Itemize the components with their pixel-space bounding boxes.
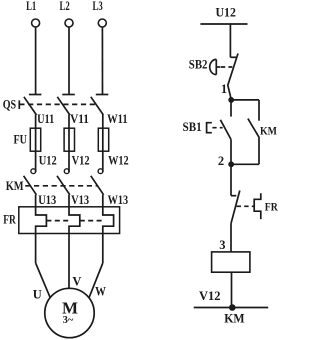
wire QS to fuse FU pole 2 xyxy=(68,115,70,173)
svg-text:V: V xyxy=(72,274,81,288)
contactor KM pole 2 fixed contact xyxy=(64,169,69,174)
svg-text:W13: W13 xyxy=(108,193,129,207)
FR heater element pole 1 with wires xyxy=(36,195,47,263)
SB2 actuator link tick xyxy=(216,66,220,68)
svg-text:FU: FU xyxy=(14,132,28,147)
start button SB1 blade (NO) xyxy=(220,120,231,140)
svg-text:1: 1 xyxy=(221,82,227,96)
node 1 junction dot xyxy=(228,97,234,103)
svg-text:V12: V12 xyxy=(72,154,90,168)
svg-text:U12: U12 xyxy=(216,4,236,19)
thermal relay FR enclosure xyxy=(19,207,120,234)
contactor KM pole 1 fixed contact xyxy=(31,169,36,174)
FR contact blade (NC) xyxy=(231,191,240,224)
svg-text:U: U xyxy=(33,288,42,302)
svg-text:2: 2 xyxy=(218,154,224,168)
fuse FU pole 3 xyxy=(98,128,108,151)
disconnect switch QS pole 2 contact bar xyxy=(62,94,75,96)
disconnect switch QS pole 2 blade xyxy=(57,97,70,115)
FR contact fixed tick xyxy=(231,195,236,197)
wire node 2 to FR contact xyxy=(230,164,232,195)
wire QS to fuse FU pole 3 xyxy=(102,115,104,173)
wire L3 down to QS xyxy=(101,27,103,95)
terminal L1 xyxy=(32,19,40,27)
FR contact dashed link xyxy=(237,205,255,207)
svg-text:W12: W12 xyxy=(108,154,129,168)
KM mechanical linkage (dashed) xyxy=(25,185,97,187)
svg-text:SB2: SB2 xyxy=(189,58,208,72)
svg-text:SB1: SB1 xyxy=(183,120,202,134)
svg-text:FR: FR xyxy=(265,200,278,214)
fuse FU pole 2 xyxy=(64,128,74,151)
wire SB1 to node 2 xyxy=(230,139,232,164)
FR heater element pole 2 with wires xyxy=(69,195,80,289)
contactor coil KM xyxy=(212,252,250,272)
svg-text:KM: KM xyxy=(224,312,245,326)
wire U12 bar to SB2 xyxy=(229,24,231,57)
svg-text:KM: KM xyxy=(260,123,277,137)
svg-text:L1: L1 xyxy=(26,0,36,13)
svg-text:FR: FR xyxy=(3,213,16,227)
wire KM aux branch upper xyxy=(258,100,260,121)
svg-text:V12: V12 xyxy=(199,289,221,303)
wire node1 to KM aux branch (horizontal) xyxy=(231,99,259,101)
svg-text:V11: V11 xyxy=(70,112,89,126)
disconnect switch QS pole 3 blade xyxy=(91,97,104,115)
svg-text:L3: L3 xyxy=(93,0,103,13)
svg-text:W: W xyxy=(95,284,106,298)
stop button SB2 fixed contact tick xyxy=(230,56,236,58)
SB2 mushroom head xyxy=(210,59,217,74)
wire node1 to SB1 xyxy=(230,100,232,117)
QS mechanical linkage (dashed) xyxy=(19,103,96,105)
contactor KM pole 1 blade xyxy=(24,176,37,195)
svg-text:QS: QS xyxy=(3,97,16,112)
FR linkage dashes 2-3 xyxy=(80,220,103,222)
motor M circle xyxy=(45,288,94,337)
wire to motor terminal W (diagonal) xyxy=(89,263,103,298)
node 2 junction dot xyxy=(228,161,234,167)
terminal L2 xyxy=(65,19,73,27)
contactor KM pole 3 fixed contact xyxy=(98,169,103,174)
disconnect switch QS pole 3 contact bar xyxy=(96,94,109,96)
control return bar V12 xyxy=(194,307,269,309)
SB2 actuator dashed link xyxy=(221,66,233,68)
svg-text:U12: U12 xyxy=(39,154,57,168)
SB1 push head xyxy=(207,123,212,133)
svg-text:3: 3 xyxy=(219,238,225,252)
control supply bar U12 xyxy=(200,23,247,25)
svg-text:U11: U11 xyxy=(37,112,54,126)
svg-text:L2: L2 xyxy=(60,0,70,13)
wire KM aux to node 2 (horizontal) xyxy=(231,163,259,165)
FR trip element symbol xyxy=(254,193,261,219)
svg-text:W11: W11 xyxy=(107,112,128,126)
contactor KM pole 3 blade xyxy=(91,176,104,195)
wire L2 down to QS xyxy=(68,27,70,95)
wire L1 down to QS xyxy=(35,27,37,95)
disconnect switch QS pole 1 contact bar xyxy=(29,94,42,96)
QS handle tick xyxy=(18,100,20,109)
SB1 actuator dashed link xyxy=(212,127,222,129)
disconnect switch QS pole 1 blade xyxy=(24,97,37,115)
contactor KM pole 2 blade xyxy=(57,176,70,195)
svg-text:KM: KM xyxy=(6,179,24,193)
fuse FU pole 1 xyxy=(30,128,40,151)
terminal L3 xyxy=(98,19,106,27)
wire QS to fuse FU pole 1 xyxy=(35,115,37,173)
stop button SB2 blade (NC) and wire to node 1 xyxy=(228,54,238,99)
wire FR contact to coil xyxy=(230,224,232,252)
FR linkage dashes 1-2 xyxy=(46,220,69,222)
svg-text:U13: U13 xyxy=(38,193,56,207)
svg-text:V13: V13 xyxy=(71,193,89,207)
wire to motor terminal U (diagonal) xyxy=(36,263,50,297)
FR heater element pole 3 with wires xyxy=(103,195,114,263)
auxiliary contact KM blade (NO) xyxy=(248,119,260,138)
junction dot at V12 xyxy=(229,304,236,311)
wire KM aux branch lower xyxy=(258,138,260,164)
wire coil to V12 bar xyxy=(231,272,233,307)
svg-text:3~: 3~ xyxy=(63,315,74,326)
